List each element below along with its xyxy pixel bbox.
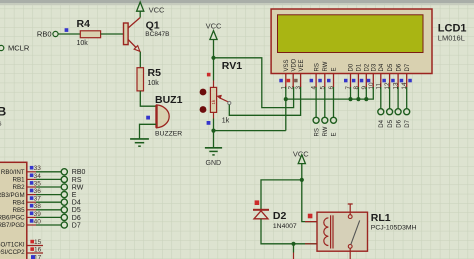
wire R5 to buzzer bbox=[140, 91, 156, 106]
svg-text:VCC: VCC bbox=[206, 21, 222, 30]
labels RS RW E bbox=[314, 126, 337, 136]
resistor R4 bbox=[77, 18, 101, 47]
svg-text:BC847B: BC847B bbox=[145, 31, 169, 38]
svg-text:D5: D5 bbox=[72, 207, 81, 214]
chip pin names bbox=[0, 169, 25, 256]
terminal RW (LCD) bbox=[322, 117, 328, 123]
chip pins 33-40 wires to terminals bbox=[27, 172, 36, 225]
svg-text:RS: RS bbox=[314, 128, 320, 136]
state square RV1 top bbox=[207, 73, 211, 77]
junction VSS bbox=[284, 97, 288, 101]
svg-text:D4: D4 bbox=[379, 63, 385, 71]
wire VCC to RV1 bbox=[213, 40, 215, 81]
svg-text:GND: GND bbox=[206, 160, 222, 167]
svg-text:VDD: VDD bbox=[291, 58, 297, 71]
wire VCC to D2 cathode bbox=[261, 180, 302, 209]
svg-text:VEE: VEE bbox=[299, 59, 305, 71]
svg-text:D6: D6 bbox=[72, 215, 81, 222]
svg-text:D7: D7 bbox=[405, 119, 411, 127]
svg-text:R5: R5 bbox=[148, 67, 162, 79]
svg-text:D5: D5 bbox=[388, 63, 394, 71]
svg-text:17: 17 bbox=[34, 254, 42, 259]
svg-text:Q1: Q1 bbox=[146, 20, 160, 32]
svg-text:E: E bbox=[332, 132, 338, 136]
chip pin numbers 33-40 bbox=[34, 165, 42, 225]
chip pin state squares 33-40 bbox=[30, 166, 34, 223]
wires RS RW E to terminals bbox=[316, 87, 333, 117]
svg-text:D3: D3 bbox=[372, 63, 378, 71]
terminal D6 bbox=[395, 109, 401, 115]
svg-text:40: 40 bbox=[34, 218, 42, 225]
power VCC (RV1) bbox=[206, 21, 222, 39]
svg-text:RB4: RB4 bbox=[13, 199, 26, 206]
wire VSS rail bbox=[214, 87, 374, 131]
state square buzzer bbox=[146, 116, 150, 120]
junction D1 bbox=[356, 97, 360, 101]
svg-text:36: 36 bbox=[34, 188, 42, 195]
svg-text:PCJ-105D3MH: PCJ-105D3MH bbox=[371, 225, 417, 232]
svg-text:RW: RW bbox=[323, 126, 329, 136]
svg-text:RB1: RB1 bbox=[13, 177, 26, 184]
svg-text:16: 16 bbox=[34, 247, 42, 254]
svg-text:2: 2 bbox=[288, 86, 295, 90]
svg-text:D1: D1 bbox=[357, 63, 363, 71]
resistor R5 bbox=[137, 67, 161, 91]
LCD screen bbox=[278, 15, 424, 53]
junction D2 bbox=[364, 97, 368, 101]
svg-text:34: 34 bbox=[34, 173, 42, 180]
relay contact bbox=[348, 215, 359, 249]
chip pin state squares 15-17 bbox=[30, 240, 34, 244]
svg-text:RC1/T1OSI/CCP2: RC1/T1OSI/CCP2 bbox=[0, 249, 25, 256]
svg-text:33: 33 bbox=[34, 165, 42, 172]
svg-text:RB6/PGC: RB6/PGC bbox=[0, 215, 25, 222]
svg-text:10k: 10k bbox=[77, 40, 89, 47]
svg-text:MCLR: MCLR bbox=[8, 44, 30, 53]
svg-text:D7: D7 bbox=[72, 222, 81, 229]
state square D2 bbox=[255, 200, 260, 205]
svg-text:RW: RW bbox=[72, 184, 84, 191]
terminal RS (LCD) bbox=[313, 117, 319, 123]
chip pins 15-17 bbox=[27, 246, 43, 254]
wire RV1 bottom to ground bbox=[213, 112, 215, 118]
svg-text:D4: D4 bbox=[379, 119, 385, 127]
svg-text:D2: D2 bbox=[365, 63, 371, 71]
svg-text:R4: R4 bbox=[77, 18, 91, 30]
transistor Q1 bbox=[124, 18, 170, 52]
LCD1 body bbox=[271, 9, 466, 74]
svg-text:VSS: VSS bbox=[284, 59, 290, 71]
svg-text:RC0/T1OSO/T1CKI: RC0/T1OSO/T1CKI bbox=[0, 242, 25, 249]
wire D2 anode down and right bbox=[261, 219, 317, 253]
labels D4-D7 bbox=[379, 119, 411, 127]
microcontroller chip body bbox=[0, 162, 27, 259]
terminal D4 bbox=[378, 109, 384, 115]
LCD pin stubs 1-14 bbox=[286, 74, 407, 87]
svg-text:D5: D5 bbox=[388, 119, 394, 127]
LCD pin state squares bbox=[279, 79, 412, 83]
relay contact pin top with tick bbox=[348, 204, 353, 215]
svg-text:D7: D7 bbox=[405, 63, 411, 71]
wire VDD link bbox=[214, 58, 294, 108]
svg-text:RS: RS bbox=[314, 63, 320, 71]
svg-text:D0: D0 bbox=[349, 63, 355, 71]
svg-text:39: 39 bbox=[34, 211, 42, 218]
LCD pin names VSS VDD VEE RS RW E D0-D7 bbox=[284, 58, 411, 71]
chip terminal labels bbox=[72, 169, 86, 229]
power VCC (relay) bbox=[293, 149, 309, 163]
svg-text:RB7/PGD: RB7/PGD bbox=[0, 222, 25, 229]
svg-text:37: 37 bbox=[34, 196, 42, 203]
junction D2/relay/driver bbox=[291, 242, 295, 246]
relay RL1 bbox=[317, 212, 417, 251]
svg-text:RV1: RV1 bbox=[222, 60, 242, 72]
terminal E (LCD) bbox=[331, 117, 337, 123]
terminal MCLR bbox=[0, 44, 30, 53]
relay contact pin bottom bbox=[349, 248, 351, 259]
svg-text:D6: D6 bbox=[396, 63, 402, 71]
svg-text:RS: RS bbox=[72, 177, 82, 184]
state square RV1 bottom bbox=[207, 121, 211, 125]
junction VSS/GND bbox=[211, 129, 215, 133]
svg-text:D6: D6 bbox=[396, 119, 402, 127]
svg-text:38: 38 bbox=[34, 203, 42, 210]
terminal D7 bbox=[404, 109, 410, 115]
svg-text:BUZZER: BUZZER bbox=[155, 131, 182, 138]
svg-text:RL1: RL1 bbox=[371, 212, 391, 224]
LCD pin numbers bbox=[280, 82, 408, 90]
svg-text:1k: 1k bbox=[211, 99, 216, 105]
ground (buzzer) bbox=[130, 139, 149, 146]
diode D2 bbox=[253, 210, 297, 230]
svg-text:RB0/INT: RB0/INT bbox=[1, 169, 25, 176]
svg-text:RB0: RB0 bbox=[37, 30, 52, 39]
svg-text:VCC: VCC bbox=[149, 6, 165, 15]
svg-text:RB0: RB0 bbox=[72, 169, 86, 176]
svg-text:1N4007: 1N4007 bbox=[273, 223, 297, 230]
relay coil bbox=[324, 215, 333, 248]
svg-text:BUZ1: BUZ1 bbox=[155, 94, 183, 106]
wire RV1 wiper to VEE bbox=[229, 87, 300, 116]
terminal RB0 bbox=[37, 30, 58, 39]
svg-text:E: E bbox=[72, 192, 77, 199]
power VCC (Q1) bbox=[137, 2, 165, 18]
svg-text:LM016L: LM016L bbox=[438, 34, 465, 43]
toolbar strip bbox=[0, 0, 474, 3]
junction VCC/D2 bbox=[300, 178, 304, 182]
ground (RV1) bbox=[205, 148, 222, 155]
svg-text:15: 15 bbox=[34, 239, 42, 246]
svg-text:E: E bbox=[332, 67, 338, 71]
potentiometer RV1 bbox=[200, 60, 243, 125]
junction D0 bbox=[348, 97, 352, 101]
relay coil pins bbox=[305, 222, 317, 244]
state square on RB0 wire bbox=[65, 28, 69, 32]
chip terminal circles bbox=[61, 169, 67, 228]
wire Q1 emitter to R5 bbox=[139, 52, 141, 68]
svg-text:RB2: RB2 bbox=[13, 184, 26, 191]
state square coil bbox=[308, 214, 313, 219]
svg-text:10k: 10k bbox=[148, 80, 160, 87]
chip pin numbers 15-17 bbox=[34, 239, 42, 259]
wire buzzer to ground bbox=[140, 124, 157, 138]
svg-text:RB5: RB5 bbox=[13, 207, 26, 214]
wire VCC down to coil bbox=[302, 164, 317, 222]
wires D4-D7 to terminals bbox=[381, 87, 407, 109]
svg-text:35: 35 bbox=[34, 180, 42, 187]
terminal D5 bbox=[387, 109, 393, 115]
buzzer BUZ1 bbox=[155, 94, 183, 137]
svg-text:RW: RW bbox=[323, 61, 329, 71]
wire R4 to Q1 base bbox=[101, 33, 124, 35]
svg-text:B: B bbox=[0, 105, 7, 119]
svg-text:D2: D2 bbox=[273, 210, 287, 222]
svg-text:1k: 1k bbox=[222, 117, 230, 124]
svg-text:RB3/PGM: RB3/PGM bbox=[0, 192, 25, 199]
svg-text:3: 3 bbox=[295, 86, 302, 90]
svg-text:D4: D4 bbox=[72, 200, 81, 207]
junction VCC/VDD branch bbox=[211, 56, 215, 60]
wire RB0 to R4 bbox=[58, 33, 80, 35]
